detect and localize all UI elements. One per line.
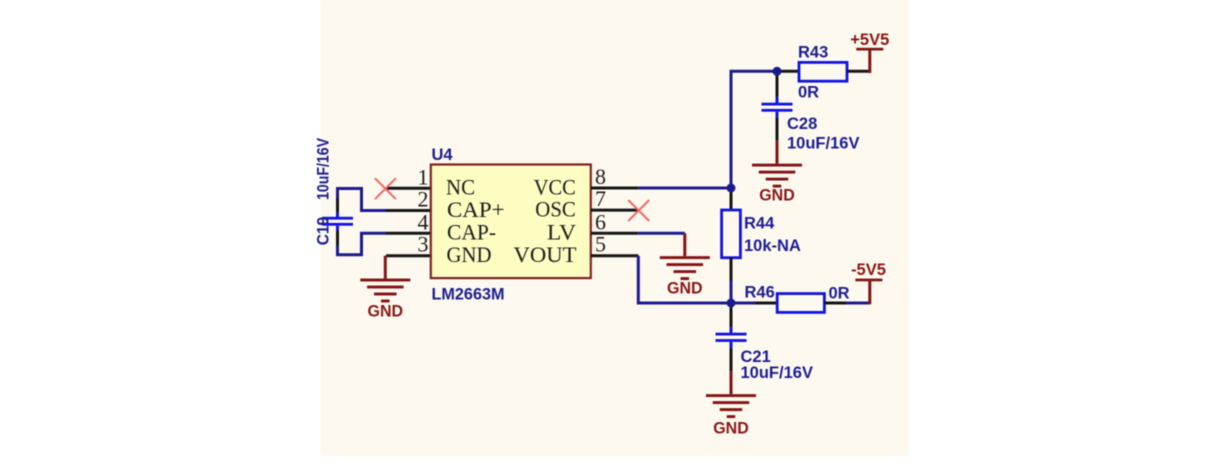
- wire R46 to -5V5: [846, 302, 870, 305]
- junction dot R46 row: [727, 299, 736, 308]
- svg-text:GND: GND: [447, 242, 492, 267]
- capacitor C19: [322, 197, 353, 246]
- svg-text:R44: R44: [744, 214, 775, 232]
- svg-text:CAP-: CAP-: [447, 220, 496, 245]
- wire cap bottom to pin 4: [338, 233, 387, 255]
- power port +5V5: [850, 31, 889, 73]
- svg-text:R43: R43: [798, 43, 828, 61]
- capacitor C28: [762, 71, 793, 141]
- pin 1 stub: [386, 187, 431, 190]
- svg-text:6: 6: [595, 209, 606, 234]
- svg-text:OSC: OSC: [535, 196, 576, 221]
- IC U4 body: [431, 165, 591, 279]
- svg-text:0R: 0R: [829, 284, 850, 302]
- svg-text:C28: C28: [787, 115, 817, 133]
- wire junction to R46: [731, 302, 756, 305]
- resistor R43: [777, 62, 870, 81]
- svg-text:10uF/16V: 10uF/16V: [315, 138, 333, 200]
- pin 3 stub: [386, 254, 431, 257]
- svg-text:-5V5: -5V5: [851, 261, 886, 279]
- no-ERC marker pin 7 (red X): [628, 200, 649, 221]
- pin 2 stub: [386, 209, 431, 212]
- pin 4 stub: [386, 232, 431, 235]
- resistor R44: [722, 190, 741, 281]
- svg-text:3: 3: [418, 232, 429, 257]
- pin 5 stub: [591, 254, 639, 257]
- power port -5V5: [851, 261, 886, 304]
- no-ERC marker pin 1 (red X): [375, 178, 396, 199]
- svg-text:+5V5: +5V5: [850, 31, 889, 49]
- capacitor C21: [716, 303, 747, 371]
- junction dot at C28 tap: [773, 67, 782, 76]
- wire R44 to lower junction: [730, 281, 733, 304]
- svg-text:4: 4: [418, 209, 429, 234]
- svg-text:10uF/16V: 10uF/16V: [787, 134, 859, 152]
- svg-text:VOUT: VOUT: [514, 242, 578, 267]
- svg-text:7: 7: [595, 186, 606, 211]
- svg-text:R46: R46: [745, 284, 775, 302]
- wire vertical up to R43 row: [730, 71, 733, 188]
- svg-text:GND: GND: [713, 420, 749, 438]
- pin 8 stub: [591, 187, 639, 190]
- svg-text:0R: 0R: [798, 84, 819, 102]
- svg-text:U4: U4: [432, 146, 454, 164]
- svg-text:LV: LV: [547, 220, 576, 245]
- svg-text:GND: GND: [368, 303, 404, 321]
- svg-text:CAP+: CAP+: [447, 197, 505, 222]
- pin 7 stub: [591, 209, 639, 212]
- svg-text:GND: GND: [759, 186, 795, 204]
- schematic sheet: [321, 0, 910, 456]
- ground at C28: [752, 141, 802, 205]
- svg-text:2: 2: [418, 187, 429, 212]
- wire cap top to pin 2: [338, 189, 387, 211]
- svg-text:C19: C19: [315, 217, 333, 246]
- svg-text:10k-NA: 10k-NA: [744, 237, 801, 255]
- ground at pin 3: [360, 256, 410, 321]
- wire VOUT down and right to junction: [638, 256, 731, 303]
- junction dot pin8/R44: [727, 184, 736, 193]
- wire pin 8 to junction: [638, 187, 731, 190]
- ground at pin 6 (LV): [638, 233, 710, 297]
- svg-text:10uF/16V: 10uF/16V: [741, 364, 813, 382]
- pin 6 stub: [591, 232, 639, 235]
- svg-text:GND: GND: [667, 279, 703, 297]
- ground at C21: [706, 371, 756, 437]
- svg-text:LM2663M: LM2663M: [432, 285, 505, 303]
- resistor R46: [756, 294, 847, 313]
- wire horizontal to C28 junction: [730, 70, 778, 73]
- svg-text:5: 5: [595, 232, 606, 257]
